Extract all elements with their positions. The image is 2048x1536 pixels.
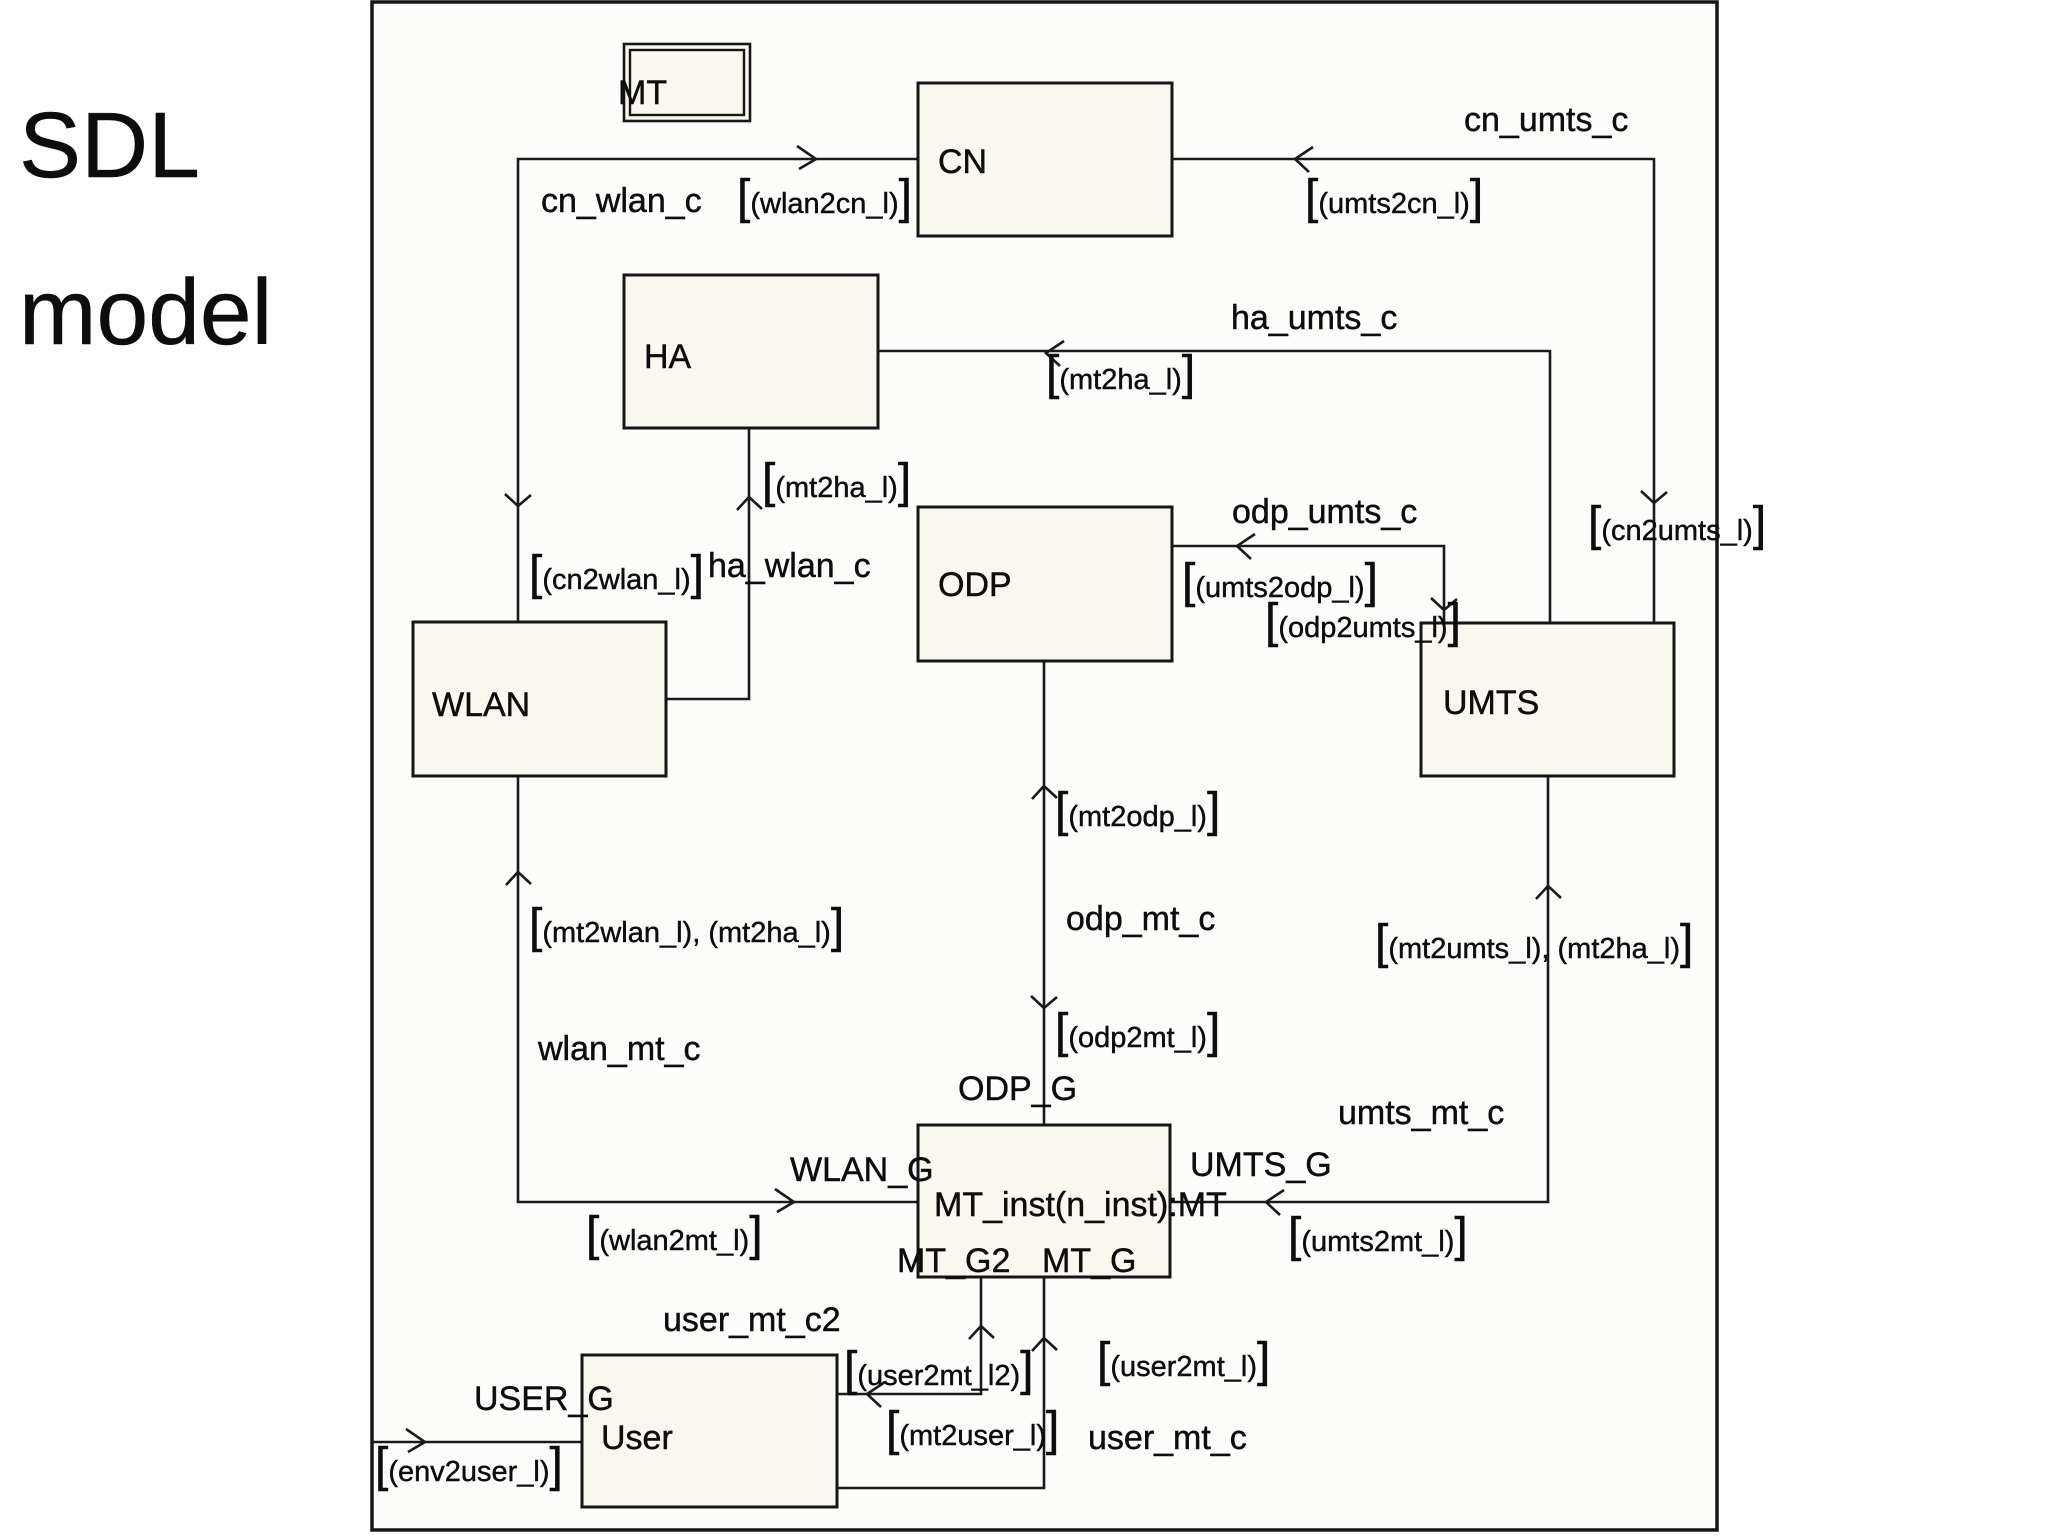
svg-text:user_mt_c2: user_mt_c2 (663, 1301, 841, 1339)
svg-text:WLAN: WLAN (432, 686, 530, 724)
svg-text:UMTS: UMTS (1443, 684, 1539, 722)
svg-text:model: model (19, 260, 272, 364)
svg-text:SDL: SDL (19, 93, 200, 197)
svg-text:wlan_mt_c: wlan_mt_c (537, 1030, 701, 1068)
svg-text:odp_mt_c: odp_mt_c (1066, 900, 1215, 938)
svg-text:MT_G2: MT_G2 (897, 1242, 1010, 1280)
svg-text:WLAN_G: WLAN_G (790, 1151, 934, 1189)
svg-text:USER_G: USER_G (474, 1380, 614, 1418)
svg-text:UMTS_G: UMTS_G (1190, 1146, 1332, 1184)
svg-text:CN: CN (938, 143, 987, 181)
svg-text:ODP_G: ODP_G (958, 1070, 1077, 1108)
svg-text:User: User (601, 1419, 673, 1457)
svg-text:MT: MT (618, 74, 667, 112)
svg-text:ha_umts_c: ha_umts_c (1231, 299, 1397, 337)
svg-text:odp_umts_c: odp_umts_c (1232, 493, 1417, 531)
svg-text:cn_wlan_c: cn_wlan_c (541, 182, 702, 220)
svg-text:HA: HA (644, 338, 692, 376)
svg-text:ODP: ODP (938, 566, 1012, 604)
svg-text:umts_mt_c: umts_mt_c (1338, 1094, 1504, 1132)
svg-text:MT_G: MT_G (1042, 1242, 1136, 1280)
svg-text:cn_umts_c: cn_umts_c (1464, 101, 1628, 139)
svg-text:MT_inst(n_inst):MT: MT_inst(n_inst):MT (934, 1186, 1227, 1224)
svg-text:user_mt_c: user_mt_c (1088, 1419, 1247, 1457)
svg-text:ha_wlan_c: ha_wlan_c (708, 547, 871, 585)
